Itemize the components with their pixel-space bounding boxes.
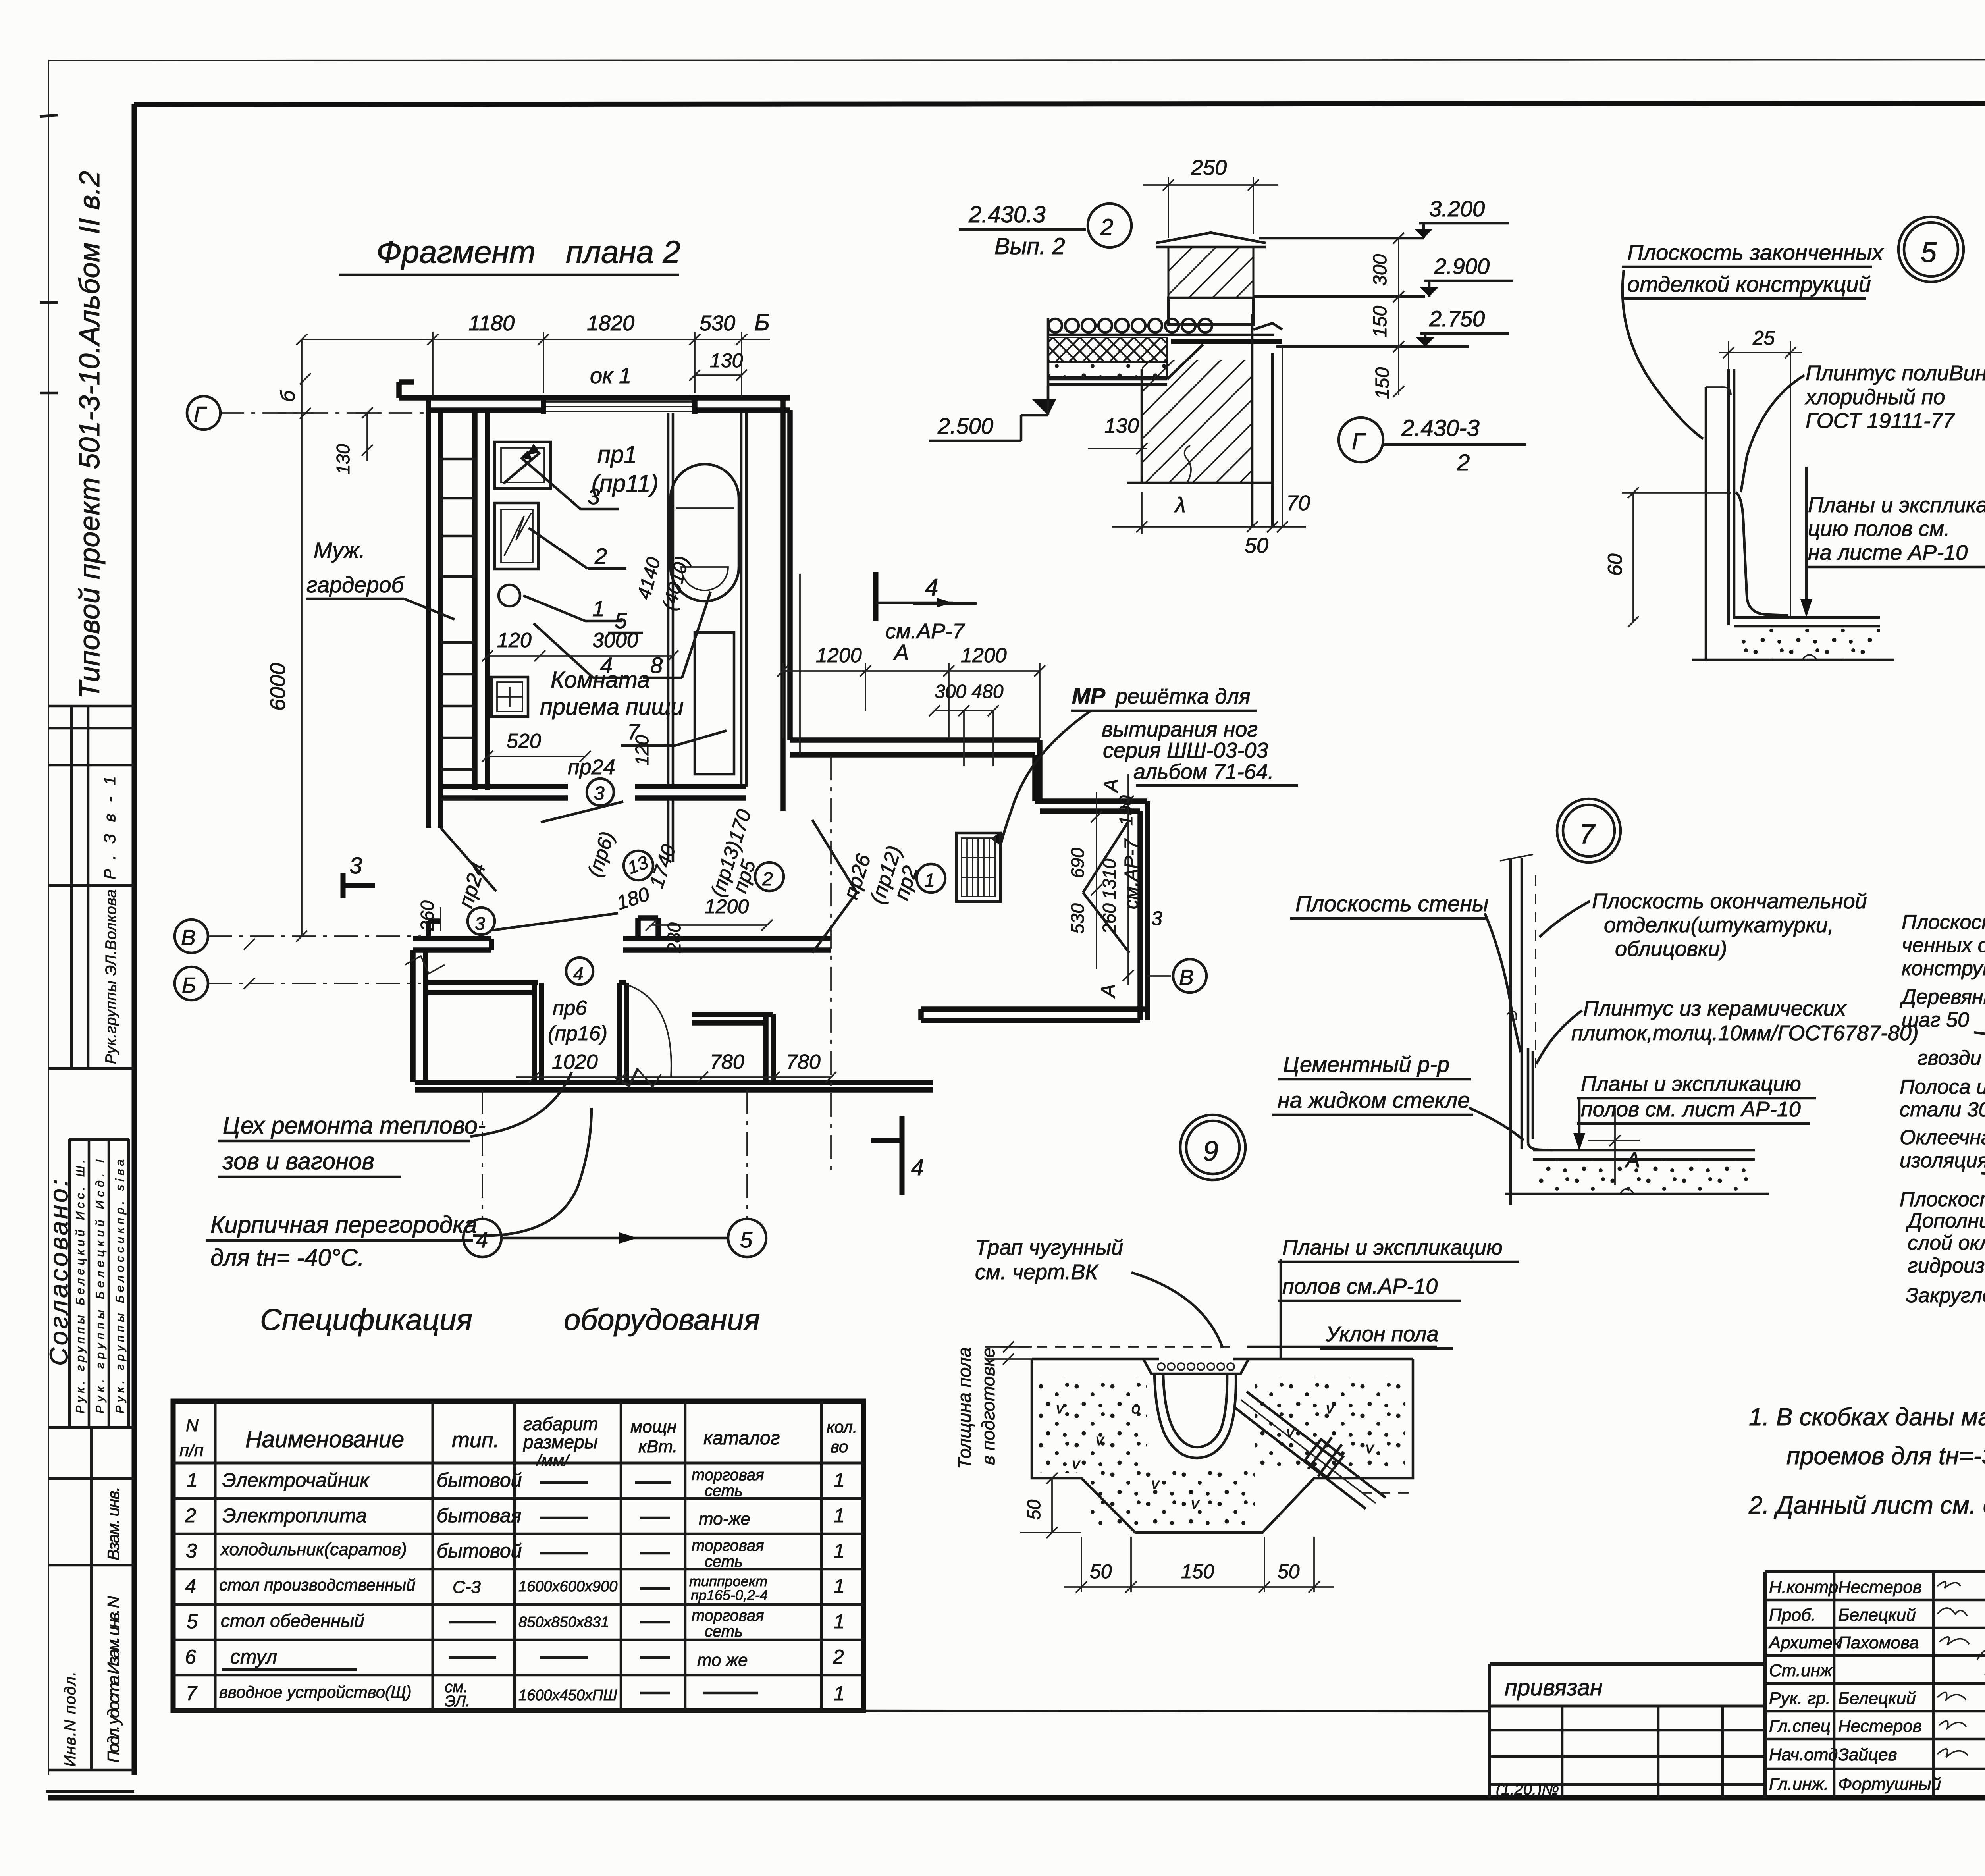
lockers at left	[441, 459, 476, 576]
svg-text:130: 130	[1104, 415, 1139, 438]
svg-text:1310: 1310	[1099, 858, 1120, 899]
top wall with window	[399, 395, 790, 401]
dimension: left 6000	[301, 339, 303, 936]
svg-text:Фортушный: Фортушный	[1838, 1774, 1941, 1794]
right outer wall	[780, 398, 786, 811]
svg-text:для tн= -40°C.: для tн= -40°C.	[210, 1244, 364, 1271]
dim 120/3000	[488, 655, 673, 657]
svg-text:Планы и эксплика-: Планы и эксплика-	[1808, 493, 1985, 517]
concrete body outline	[1032, 1359, 1413, 1533]
svg-text:v: v	[1191, 1495, 1200, 1512]
room bottom wall with door opening	[441, 784, 568, 789]
leader from title curving to wall	[1623, 270, 1703, 439]
sink	[495, 442, 551, 488]
left outer wall	[426, 398, 431, 828]
pier jamb at 180 door	[635, 918, 641, 939]
svg-text:бытовой: бытовой	[437, 1540, 522, 1562]
svg-text:на листе АР-10: на листе АР-10	[1808, 541, 1968, 565]
bottom dim	[1112, 526, 1306, 528]
svg-text:2: 2	[185, 1504, 196, 1527]
svg-text:Плоскость стены: Плоскость стены	[1900, 1188, 1985, 1211]
svg-text:(пр6): (пр6)	[583, 829, 619, 879]
svg-text:габарит: габарит	[523, 1413, 598, 1434]
svg-text:серия ШШ-03-03: серия ШШ-03-03	[1103, 738, 1268, 762]
bath partition walls	[667, 413, 670, 787]
svg-text:2: 2	[833, 1646, 844, 1668]
top dashed + floor line	[1000, 1346, 1231, 1348]
level leader lines right	[1259, 237, 1424, 240]
svg-text:Дополнительный: Дополнительный	[1906, 1209, 1985, 1232]
svg-text:отделки(штукатурки,: отделки(штукатурки,	[1604, 913, 1834, 937]
svg-text:1200: 1200	[705, 895, 749, 918]
svg-text:1600х450хПШ: 1600х450хПШ	[518, 1687, 617, 1704]
signature table	[1765, 1572, 1985, 1798]
lower rooms walls	[426, 980, 538, 985]
svg-text:Гл.спец: Гл.спец	[1769, 1716, 1831, 1736]
bottom dim 1020 780 780	[516, 1076, 831, 1078]
svg-text:пр24: пр24	[568, 755, 615, 779]
svg-text:690: 690	[1067, 848, 1088, 878]
svg-text:1: 1	[834, 1504, 845, 1527]
svg-text:В: В	[1179, 965, 1194, 989]
door arc lower	[626, 985, 671, 1077]
svg-text:Плоскость законченных: Плоскость законченных	[1627, 240, 1884, 265]
svg-text:v: v	[1366, 1439, 1374, 1457]
svg-text:приема пищи: приема пищи	[540, 694, 684, 720]
svg-text:стол производственный: стол производственный	[219, 1575, 415, 1594]
svg-text:гвозди: гвозди	[1918, 1047, 1981, 1070]
plinth profile	[1736, 492, 1788, 615]
vestibule right wall / bottom	[1137, 811, 1143, 1020]
svg-text:25: 25	[1752, 327, 1775, 349]
svg-text:Трап чугунный: Трап чугунный	[975, 1236, 1123, 1259]
svg-text:4: 4	[185, 1575, 196, 1597]
svg-text:б: б	[277, 390, 299, 402]
svg-text:1820: 1820	[587, 311, 634, 335]
svg-text:Оклеечная гидро-: Оклеечная гидро-	[1900, 1126, 1985, 1149]
wall	[1509, 858, 1512, 1189]
Г reference bubble right	[1339, 418, 1383, 462]
svg-text:260: 260	[1099, 903, 1120, 934]
svg-text:4: 4	[911, 1155, 924, 1180]
svg-text:пр165-0,2-4: пр165-0,2-4	[691, 1587, 768, 1603]
svg-text:см.АР-7: см.АР-7	[1121, 838, 1142, 909]
svg-text:Гл.инж.: Гл.инж.	[1769, 1774, 1829, 1794]
svg-text:сеть: сеть	[705, 1553, 743, 1570]
svg-text:v: v	[1326, 1400, 1335, 1417]
svg-text:λ: λ	[1174, 493, 1186, 517]
stairs	[441, 641, 475, 644]
svg-text:Типовой проект 501-3-10.Альбом: Типовой проект 501-3-10.Альбом II в.2	[74, 171, 106, 699]
svg-text:гидроизоляции: гидроизоляции	[1908, 1254, 1985, 1277]
svg-text:2: 2	[762, 869, 773, 890]
right dim chain of vestibule	[1096, 792, 1097, 969]
пр6 lower label	[566, 958, 593, 985]
svg-text:вводное устройство(Щ): вводное устройство(Щ)	[219, 1683, 412, 1701]
svg-text:280: 280	[664, 922, 684, 953]
svg-text:Деревянные пробки: Деревянные пробки	[1900, 985, 1985, 1008]
svg-text:вытирания ног: вытирания ног	[1102, 717, 1258, 741]
svg-text:ГОСТ 19111-77: ГОСТ 19111-77	[1806, 409, 1955, 433]
axis В right	[1173, 959, 1206, 993]
svg-text:2.430-3: 2.430-3	[1401, 415, 1480, 441]
svg-text:проемов для tн=-30°C,-40°C.: проемов для tн=-30°C,-40°C.	[1786, 1442, 1985, 1470]
svg-text:3.200: 3.200	[1429, 196, 1485, 221]
svg-text:Полоса из кровельной: Полоса из кровельной	[1900, 1076, 1985, 1099]
svg-text:260: 260	[417, 900, 437, 931]
svg-text:Закругление ч=80мм: Закругление ч=80мм	[1906, 1284, 1985, 1307]
svg-text:4: 4	[476, 1227, 488, 1252]
svg-text:5: 5	[187, 1610, 198, 1633]
svg-text:300 480: 300 480	[935, 681, 1004, 702]
svg-text:190: 190	[1116, 795, 1136, 826]
svg-text:2.900: 2.900	[1434, 254, 1490, 279]
svg-text:см.АР-7: см.АР-7	[885, 619, 965, 643]
svg-text:торговая: торговая	[692, 1466, 764, 1484]
svg-text:см. черт.ВК: см. черт.ВК	[975, 1260, 1099, 1284]
drain funnel channel	[1154, 1374, 1236, 1458]
svg-text:1: 1	[834, 1469, 845, 1491]
svg-text:Р.Зв-1: Р.Зв-1	[101, 776, 119, 879]
svg-text:50: 50	[1245, 534, 1268, 557]
plinth	[1527, 1048, 1530, 1143]
svg-text:3: 3	[349, 853, 362, 879]
concrete dots + v marks	[1036, 1378, 1147, 1473]
privyazan table	[1490, 1664, 1765, 1798]
svg-text:Рук. гр.: Рук. гр.	[1769, 1689, 1831, 1708]
svg-text:Спецификация: Спецификация	[260, 1303, 472, 1337]
lower-left pier	[428, 918, 441, 924]
svg-text:Кирпичная перегородка: Кирпичная перегородка	[210, 1211, 477, 1238]
svg-text:850х850х831: 850х850х831	[518, 1614, 609, 1631]
svg-text:Рук.группы ЭЛ.Волкова: Рук.группы ЭЛ.Волкова	[103, 889, 119, 1064]
svg-text:1200: 1200	[816, 644, 862, 667]
svg-text:3: 3	[588, 484, 600, 509]
svg-text:Проб.: Проб.	[1769, 1605, 1816, 1625]
svg-text:Муж.: Муж.	[314, 538, 365, 563]
svg-text:150: 150	[1372, 367, 1393, 399]
svg-text:отделкой конструкций: отделкой конструкций	[1627, 272, 1871, 297]
svg-text:Цементный р-р: Цементный р-р	[1283, 1052, 1449, 1077]
section 4-4 cut line	[799, 574, 801, 754]
svg-text:Фрагмент: Фрагмент	[376, 234, 536, 270]
svg-text:Белецкий: Белецкий	[1838, 1689, 1916, 1708]
svg-text:v: v	[1096, 1431, 1104, 1449]
svg-text:Б: Б	[754, 309, 770, 335]
hall mid wall band	[623, 936, 831, 941]
floor slab with round voids	[1048, 319, 1212, 332]
svg-text:Плинтус полиВинил-: Плинтус полиВинил-	[1806, 361, 1985, 385]
svg-text:(1.20.)№: (1.20.)№	[1496, 1781, 1559, 1798]
dashed finish plane	[1535, 875, 1536, 1068]
svg-text:пр1: пр1	[597, 441, 637, 468]
svg-text:Электрочайник: Электрочайник	[222, 1469, 370, 1491]
svg-text:стол обеденный: стол обеденный	[221, 1610, 364, 1631]
svg-text:120: 120	[632, 735, 652, 765]
svg-text:МР: МР	[1072, 683, 1106, 708]
svg-text:Нач.отд: Нач.отд	[1769, 1745, 1838, 1764]
svg-text:2.500: 2.500	[937, 413, 993, 438]
small stub left of wall	[399, 379, 414, 385]
svg-text:кол.: кол.	[827, 1417, 858, 1436]
svg-text:250: 250	[1191, 156, 1227, 179]
svg-text:1: 1	[924, 870, 935, 891]
svg-text:торговая: торговая	[692, 1537, 764, 1554]
svg-text:Планы и экспликацию: Планы и экспликацию	[1581, 1072, 1801, 1096]
door swing diagonals	[541, 802, 623, 822]
svg-text:Пахомова: Пахомова	[1838, 1633, 1919, 1652]
axis Б left	[175, 967, 208, 1000]
dashes in empty cells	[222, 1483, 758, 1693]
svg-text:Рук. группы Белецкий Исд. I: Рук. группы Белецкий Исд. I	[94, 1159, 107, 1413]
svg-text:4: 4	[925, 574, 938, 601]
lower hatched wall block	[1141, 369, 1143, 483]
svg-text:9: 9	[1203, 1136, 1218, 1166]
corridor top wall right part	[790, 737, 1040, 743]
bubble 7	[1557, 799, 1621, 862]
grate	[956, 833, 1000, 902]
svg-text:130: 130	[710, 349, 743, 372]
svg-text:5: 5	[1921, 237, 1937, 268]
A flag right of plan bottom	[1614, 1108, 1616, 1185]
svg-text:торговая: торговая	[692, 1607, 764, 1624]
parapet cap	[1156, 233, 1266, 243]
floor	[1533, 1149, 1755, 1152]
long line to title table	[173, 1710, 1490, 1711]
svg-text:7: 7	[186, 1682, 198, 1704]
svg-text:Г: Г	[194, 402, 207, 426]
svg-text:1: 1	[592, 596, 605, 621]
svg-text:Электроплита: Электроплита	[222, 1504, 367, 1527]
svg-text:v: v	[1151, 1475, 1160, 1492]
svg-text:полов см. лист АР-10: полов см. лист АР-10	[1581, 1097, 1801, 1121]
svg-text:v: v	[1056, 1400, 1065, 1417]
svg-text:1740: 1740	[645, 842, 680, 891]
svg-text:Плинтус из керамических: Плинтус из керамических	[1583, 997, 1847, 1020]
svg-text:180: 180	[614, 883, 652, 914]
svg-text:Зайцев: Зайцев	[1838, 1745, 1897, 1764]
svg-text:5: 5	[740, 1227, 753, 1252]
svg-text:п/п: п/п	[179, 1441, 204, 1460]
svg-text:Инв.N подл.: Инв.N подл.	[62, 1672, 79, 1767]
svg-text:1020: 1020	[552, 1051, 598, 1074]
dim 1200 A 1200 right top	[783, 670, 1040, 672]
svg-text:Рук. группы Белоссикпр. siва: Рук. группы Белоссикпр. siва	[114, 1159, 127, 1413]
svg-text:кВт.: кВт.	[638, 1437, 678, 1456]
svg-text:холодильник(саратов): холодильник(саратов)	[220, 1540, 407, 1559]
svg-text:1180: 1180	[468, 311, 515, 335]
signatures squiggles	[1937, 1582, 1985, 1807]
svg-text:Белецкий: Белецкий	[1838, 1605, 1916, 1625]
svg-text:780: 780	[710, 1051, 744, 1074]
svg-text:70: 70	[1286, 491, 1310, 515]
svg-text:1: 1	[187, 1469, 198, 1491]
svg-text:хлоридный по: хлоридный по	[1804, 385, 1945, 409]
svg-text:Наименование: Наименование	[245, 1427, 404, 1452]
svg-text:v: v	[1286, 1423, 1295, 1441]
50 left dim	[1051, 1478, 1053, 1533]
svg-text:60: 60	[1604, 553, 1626, 576]
svg-text:4: 4	[573, 963, 584, 984]
svg-text:/мм/: /мм/	[536, 1451, 570, 1469]
svg-text:1: 1	[834, 1540, 845, 1562]
svg-text:50: 50	[1023, 1499, 1044, 1520]
svg-text:1: 1	[834, 1610, 845, 1633]
svg-text:А: А	[1100, 779, 1122, 793]
svg-text:слой оклеечной: слой оклеечной	[1908, 1232, 1985, 1255]
svg-text:4140: 4140	[633, 555, 665, 602]
svg-text:Рук. группы Белецкий Исс. Ш.: Рук. группы Белецкий Исс. Ш.	[74, 1159, 87, 1413]
svg-text:сеть: сеть	[705, 1623, 743, 1640]
svg-text:привязан: привязан	[1505, 1675, 1603, 1701]
svg-text:300: 300	[1370, 254, 1391, 286]
svg-text:v: v	[1072, 1455, 1081, 1473]
svg-text:в подготовке: в подготовке	[978, 1348, 998, 1465]
svg-text:Вып. 2: Вып. 2	[994, 233, 1065, 259]
svg-text:решётка для: решётка для	[1115, 684, 1251, 708]
svg-text:стул: стул	[230, 1646, 277, 1668]
svg-text:сеть: сеть	[705, 1482, 743, 1500]
svg-text:3: 3	[475, 913, 485, 934]
svg-text:А: А	[893, 640, 909, 665]
cabinet	[695, 632, 734, 774]
svg-text:Цех ремонта теплово-: Цех ремонта теплово-	[223, 1112, 486, 1139]
bath	[671, 464, 739, 601]
floor slab	[1734, 616, 1880, 619]
svg-text:А: А	[1097, 984, 1119, 999]
svg-text:50: 50	[1090, 1560, 1112, 1583]
svg-text:1200: 1200	[961, 644, 1007, 667]
svg-text:3000: 3000	[592, 629, 638, 652]
svg-text:Плоскость стены: Плоскость стены	[1295, 891, 1488, 916]
svg-text:2.750: 2.750	[1429, 306, 1485, 331]
svg-text:конструкций: конструкций	[1902, 957, 1985, 980]
gost margin cells	[48, 1426, 134, 1429]
svg-text:во: во	[831, 1437, 848, 1456]
axis В left	[175, 920, 208, 953]
svg-text:бытовая: бытовая	[437, 1504, 521, 1527]
svg-text:пр6: пр6	[553, 997, 587, 1020]
svg-text:780: 780	[786, 1051, 821, 1074]
vestibule door leaves	[812, 820, 857, 893]
svg-text:2: 2	[594, 544, 607, 569]
svg-text:Нестеров: Нестеров	[1838, 1716, 1922, 1736]
svg-text:шаг 50: шаг 50	[1902, 1008, 1969, 1032]
svg-text:2: 2	[1457, 450, 1470, 476]
wall lines	[1705, 387, 1707, 661]
svg-text:Архитек: Архитек	[1768, 1633, 1842, 1652]
svg-text:(пр11): (пр11)	[592, 470, 659, 497]
left dim ticks	[985, 1346, 1032, 1348]
svg-text:o: o	[1131, 1400, 1140, 1417]
svg-text:то-же: то-же	[699, 1509, 750, 1529]
svg-text:Б: Б	[182, 973, 196, 997]
section 4 bottom flag	[900, 1116, 905, 1195]
svg-text:облицовки): облицовки)	[1615, 937, 1727, 961]
vertical dim chain	[1398, 238, 1399, 395]
bottom dims	[1064, 1586, 1334, 1588]
margin sub-table top	[48, 705, 134, 708]
svg-text:ченных отделкой: ченных отделкой	[1902, 934, 1985, 957]
svg-text:ЭЛ.: ЭЛ.	[445, 1693, 470, 1710]
svg-text:530: 530	[700, 311, 735, 335]
svg-text:130: 130	[333, 444, 353, 474]
svg-text:Уклон пола: Уклон пола	[1326, 1322, 1439, 1346]
section 3 left flag	[341, 873, 346, 898]
svg-text:Толщина пола: Толщина пола	[954, 1347, 975, 1469]
left lower outer wall with break	[410, 950, 416, 1082]
bottom outer wall	[415, 1080, 933, 1085]
fold marks	[40, 301, 58, 304]
svg-text:Плоскость окончательной: Плоскость окончательной	[1592, 889, 1867, 913]
svg-text:Плоскость закон-: Плоскость закон-	[1902, 911, 1985, 934]
rows	[185, 1466, 845, 1710]
svg-text:Планы и экспликацию: Планы и экспликацию	[1282, 1236, 1503, 1259]
svg-text:3: 3	[186, 1540, 197, 1562]
svg-text:мощн: мощн	[630, 1417, 676, 1436]
svg-text:6: 6	[185, 1646, 196, 1668]
svg-text:150: 150	[1370, 306, 1391, 337]
svg-text:530: 530	[1067, 903, 1088, 934]
table grid	[173, 1401, 863, 1710]
svg-text:2: 2	[1100, 214, 1113, 240]
svg-text:(пр16): (пр16)	[548, 1022, 607, 1045]
svg-text:каталог: каталог	[703, 1428, 780, 1449]
svg-text:150: 150	[1181, 1560, 1214, 1583]
svg-text:Нестеров: Нестеров	[1838, 1577, 1922, 1597]
svg-text:пр24: пр24	[454, 860, 490, 911]
svg-text:стали 30х1: стали 30х1	[1900, 1098, 1985, 1121]
svg-text:Г: Г	[1352, 429, 1366, 455]
upper hatched wall block	[1168, 247, 1253, 298]
svg-text:1. В скобках даны марки перемы: 1. В скобках даны марки перемычек и прив…	[1749, 1404, 1985, 1431]
axes 4 and 5 bottom circles	[482, 1090, 483, 1219]
svg-text:Н.контр.: Н.контр.	[1769, 1577, 1843, 1597]
svg-text:120: 120	[497, 629, 532, 652]
svg-text:бытовой: бытовой	[437, 1469, 522, 1491]
svg-text:размеры: размеры	[522, 1432, 598, 1452]
svg-text:6000: 6000	[266, 663, 290, 711]
small table	[491, 677, 528, 717]
svg-text:гардероб: гардероб	[306, 572, 405, 597]
svg-text:ок 1: ок 1	[590, 363, 631, 388]
kettle	[499, 585, 520, 606]
svg-text:1600х600х900: 1600х600х900	[518, 1578, 617, 1595]
svg-text:Ст.инж: Ст.инж	[1769, 1661, 1833, 1680]
bubble 5	[1898, 217, 1964, 282]
svg-text:В: В	[181, 925, 196, 950]
svg-text:на жидком стекле: на жидком стекле	[1278, 1087, 1470, 1112]
flange	[1308, 1437, 1332, 1469]
right wall lines below	[1251, 314, 1254, 527]
dimension: top chain	[421, 339, 770, 340]
stove	[495, 503, 538, 569]
svg-text:N: N	[186, 1416, 198, 1435]
svg-text:плиток,толщ.10мм/ГОСТ6787-80): плиток,толщ.10мм/ГОСТ6787-80)	[1571, 1021, 1919, 1045]
svg-text:1: 1	[834, 1682, 845, 1704]
svg-text:3: 3	[1151, 907, 1162, 929]
axis Г	[187, 396, 220, 430]
svg-text:цию полов см.: цию полов см.	[1808, 517, 1950, 541]
section 4 top flag	[873, 572, 879, 621]
diagonal outlet pipe	[1235, 1407, 1366, 1509]
svg-text:Подл. удоста Изам. инв. N: Подл. удоста Изам. инв. N	[104, 1596, 123, 1763]
svg-text:тип.: тип.	[452, 1428, 499, 1452]
svg-text:50: 50	[1278, 1560, 1300, 1583]
bubble 9	[1180, 1115, 1245, 1180]
svg-text:плана 2: плана 2	[566, 234, 680, 270]
room left wall	[472, 410, 478, 790]
